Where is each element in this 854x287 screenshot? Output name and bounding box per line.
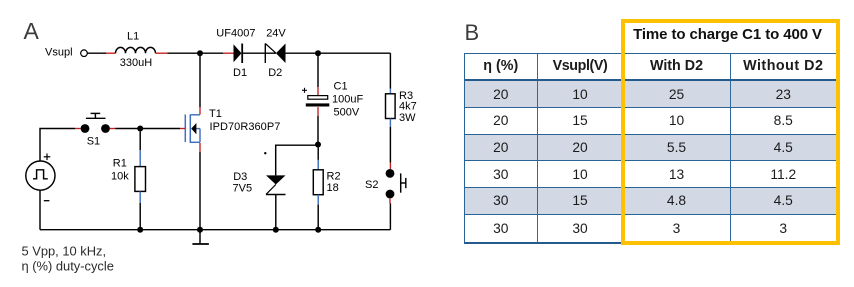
svg-text:4k7: 4k7 (399, 100, 417, 112)
stray dot (264, 152, 266, 154)
table title (618, 26, 837, 43)
wire V1 to rail (39, 190, 41, 230)
zener D2 (265, 44, 285, 64)
svg-text:S1: S1 (87, 135, 100, 147)
svg-text:24V: 24V (266, 28, 286, 40)
wire D1 to D2 (243, 52, 276, 54)
svg-text:R2: R2 (327, 170, 341, 182)
svg-text:A: A (24, 18, 40, 44)
wire gate (180, 128, 185, 130)
label C1 plus (302, 88, 307, 93)
resistor R1 (135, 132, 146, 230)
junction node D3-rail (273, 227, 279, 233)
wire C1-bottom to R2 (317, 145, 319, 160)
svg-text:D1: D1 (233, 67, 247, 79)
wire S2 to rail (389, 204, 391, 230)
wire S1 to gate (115, 128, 180, 130)
resistor R2 (313, 160, 323, 230)
zener D3 (266, 175, 286, 229)
junction node C1-bottom (315, 142, 321, 148)
wire drain vertical (199, 53, 201, 107)
svg-text:UF4007: UF4007 (216, 28, 255, 40)
resistor R3 (386, 89, 396, 127)
wire C1-bottom to D3 (276, 145, 318, 175)
svg-text:5 Vpp, 10 kHz,: 5 Vpp, 10 kHz, (22, 244, 107, 259)
svg-text:η (%) duty-cycle: η (%) duty-cycle (22, 259, 114, 274)
svg-text:500V: 500V (334, 107, 360, 119)
svg-text:18: 18 (327, 182, 339, 194)
wire D2 to R3 branch (286, 52, 391, 54)
junction node R1-rail (137, 227, 143, 233)
svg-text:IPD70R360P7: IPD70R360P7 (210, 121, 281, 133)
svg-text:7V5: 7V5 (233, 183, 253, 195)
svg-text:Vsupl: Vsupl (45, 47, 73, 59)
wire Vsupl to L1 (87, 52, 106, 54)
svg-text:S2: S2 (365, 179, 378, 191)
svg-text:D2: D2 (268, 67, 282, 79)
capacitor C1 (306, 53, 330, 144)
label B (465, 20, 480, 46)
wire L1 to D1 (168, 52, 224, 54)
transistor T1 (185, 115, 200, 144)
junction node C1-top (315, 50, 321, 56)
wire source V1 to S1 (40, 129, 75, 162)
data rows (465, 81, 836, 241)
junction node drain-top (197, 50, 203, 56)
wire source vertical (199, 143, 201, 152)
svg-text:T1: T1 (209, 108, 222, 120)
svg-text:3W: 3W (399, 112, 416, 124)
diode D1 (223, 44, 242, 64)
yellow highlight box (621, 19, 840, 245)
results table (464, 53, 837, 244)
svg-text:D3: D3 (233, 171, 247, 183)
label V1 plus (44, 154, 51, 161)
source V1 pulse generator (26, 161, 55, 190)
terminal Vsupl (81, 50, 88, 57)
switch S2 (386, 163, 406, 204)
ground (192, 230, 209, 244)
junction node gate/R1 (137, 126, 143, 132)
svg-text:L1: L1 (127, 31, 139, 43)
junction node gnd-rail (197, 227, 203, 233)
switch S1 (75, 113, 115, 132)
circuit schematic panel A (0, 0, 460, 287)
svg-text:330uH: 330uH (120, 57, 152, 69)
label V1 minus (44, 200, 50, 202)
svg-text:C1: C1 (334, 80, 348, 92)
svg-text:100uF: 100uF (332, 94, 363, 106)
wire down to R3 (389, 53, 391, 88)
svg-text:R1: R1 (113, 157, 127, 169)
inductor L1 (106, 47, 168, 53)
junction node R2-rail (315, 227, 321, 233)
wire R3 to S2 (389, 127, 391, 163)
header row (465, 54, 836, 82)
bottom rail wire (40, 229, 390, 231)
svg-text:10k: 10k (111, 170, 129, 182)
